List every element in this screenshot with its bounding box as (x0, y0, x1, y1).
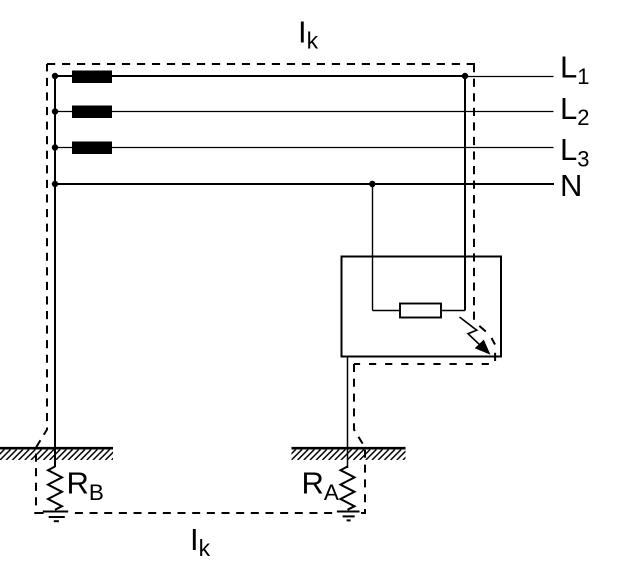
wire L1 branch down to appliance (464, 76, 466, 311)
wire L1 thick segment (55, 75, 465, 77)
resistor RB zigzag (48, 467, 62, 510)
earth hatch left (0, 447, 113, 450)
fault loop dashed top (47, 63, 475, 65)
fault loop dashed bottom (34, 512, 43, 514)
wire left bus PEN down to earth RB (54, 76, 56, 467)
load resistor in appliance (400, 304, 441, 318)
wire N branch down to appliance (372, 184, 374, 311)
node on L2 at bus (52, 108, 58, 114)
node on N at bus (52, 181, 58, 187)
fuse F3 on L3 (72, 142, 112, 155)
fault loop dashed below box (354, 363, 495, 365)
fault loop dashed right lower vertical (354, 364, 365, 513)
node on L1 at bus (52, 73, 58, 79)
ground electrode RB (43, 511, 68, 513)
fault loop dashed curve into fault point (479, 326, 486, 332)
fuse F1 on L1 (72, 71, 112, 84)
wire inside box left (373, 310, 401, 312)
fault loop dashed left vertical (36, 64, 47, 505)
wire inside box right (441, 310, 465, 312)
node on L1 branch (462, 73, 468, 79)
wire L3 (55, 147, 554, 149)
fault loop dashed right vertical (473, 64, 475, 320)
fuse F2 on L2 (72, 106, 112, 119)
wire L2 (55, 111, 554, 113)
node on N branch (369, 181, 375, 187)
wire N (55, 183, 554, 185)
node on L3 at bus (52, 144, 58, 150)
fault bolt arrow to enclosure (460, 317, 482, 346)
ground electrode RA (337, 511, 360, 513)
resistor RA zigzag (341, 467, 355, 510)
earth hatch right (292, 447, 406, 450)
appliance enclosure box (342, 257, 502, 357)
wire enclosure to earth RA (347, 357, 349, 469)
wire L1 thin segment to label (465, 76, 554, 78)
svg-text:N: N (560, 168, 582, 203)
